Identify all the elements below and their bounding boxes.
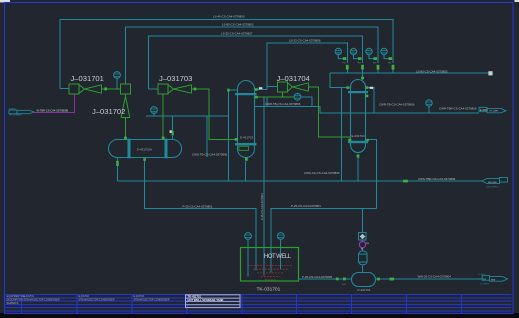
svg-text:E-431704: E-431704 [352, 134, 365, 138]
svg-text:CWS-TBR-CS-CA4-0370806: CWS-TBR-CS-CA4-0370806 [418, 177, 456, 181]
wire steam rail LS-32 (4th) [267, 43, 347, 90]
wire CWS header y181 [118, 180, 483, 182]
wire pump pot discharge to right edge [376, 278, 486, 280]
instrument near J-031704 [294, 93, 301, 100]
instrument on CWR line [426, 100, 432, 106]
wire hot well dip pipe 5 [280, 239, 282, 269]
wire stem instrument circle on CWR line [428, 106, 430, 113]
wire vertical drops to LS header [346, 70, 348, 74]
instrument below J-031703 [151, 107, 158, 114]
heat exchanger E-431702A (horizontal shell) [109, 139, 182, 159]
ejector J-031702 box [121, 84, 131, 94]
svg-text:FO: FO [373, 62, 376, 64]
wire pump stack suction line [271, 209, 376, 273]
svg-text:LS-80-CS-CA4-0370805: LS-80-CS-CA4-0370805 [416, 70, 448, 74]
fitting col1 right nozzle2 [255, 96, 258, 99]
top-right white mark [515, 0, 519, 2]
svg-text:TO WWT: TO WWT [480, 284, 490, 286]
fitting column1 bottom [245, 158, 248, 161]
fitting column1 inlet [235, 138, 238, 141]
fitting column2 left nozzle [346, 86, 349, 89]
svg-text:P-431701: P-431701 [358, 288, 371, 292]
wire J-031704 diffuser outlet to column2 [308, 87, 350, 137]
wire pump stack riser [362, 209, 364, 233]
svg-text:STEAM EJECTOR CONDENSER: STEAM EJECTOR CONDENSER [79, 299, 115, 302]
fitting exchanger bottom nozzle [143, 158, 146, 161]
svg-text:P-4317: P-4317 [479, 274, 487, 276]
fitting hot well outlet 2 [336, 278, 339, 281]
instrument set 1 [335, 48, 343, 58]
instrument set 4 [381, 48, 389, 58]
svg-text:TO CWR: TO CWR [489, 111, 498, 113]
svg-text:CWS-TB-CS-CA4-0370806: CWS-TB-CS-CA4-0370806 [192, 153, 228, 157]
svg-text:W-TBR-CS-CA4-0370800B: W-TBR-CS-CA4-0370800B [37, 108, 69, 112]
fitting col2 inlet nozzle [348, 139, 351, 142]
highlighted equipment cell TK-031701 [186, 295, 241, 308]
wire LS condensate header y73 [330, 72, 489, 74]
valve tag on exchanger drop [170, 130, 172, 133]
tag col2 dome-right [370, 87, 374, 89]
wire drop into exchanger top right [171, 116, 173, 140]
fitting exchanger top nozzle right (on drain) [162, 137, 165, 140]
ejector J-031704 box [278, 82, 288, 92]
ejector J-031703 nozzle-diffuser [168, 85, 192, 94]
wire J-031702 outlet into exchanger [125, 118, 127, 140]
wire steam rail LS-85 (2nd) [126, 27, 379, 84]
wire J-031704 drain vertical to hot well [263, 97, 265, 275]
connector right CWR (points right) [479, 107, 506, 113]
grip square at LS header end [488, 71, 492, 75]
instrument on hot well dip 5 [277, 233, 284, 240]
svg-text:FR CWS: FR CWS [488, 182, 497, 184]
svg-text:FO: FO [388, 62, 391, 64]
wire rail3 elbow into J-031703 [149, 88, 159, 90]
ejector J-031701 nozzle-diffuser [79, 85, 102, 94]
bottom black strip [0, 313, 519, 318]
pump pot P-431701 [352, 273, 376, 287]
svg-text:HOT WELL: HOT WELL [264, 254, 292, 260]
wire column2 bottom leg [357, 157, 359, 181]
wire hot well outlet to pump pot [298, 278, 351, 280]
svg-text:LO: LO [343, 284, 346, 286]
svg-text:CWR-TB-CS-CA4-0370806: CWR-TB-CS-CA4-0370806 [265, 102, 301, 106]
wire CWS riser to column2 [340, 88, 342, 181]
svg-text:FO: FO [358, 62, 361, 64]
svg-text:TK-031701: TK-031701 [257, 287, 281, 293]
wire J-031701 diffuser outlet to J-031702 [101, 88, 121, 90]
wire drop to CWS stub [206, 116, 208, 157]
instrument set 2 [350, 48, 358, 58]
wire header drop to column2 top [330, 73, 350, 88]
tag col1 dome-right [259, 87, 263, 89]
wire column1 bottom leg [245, 162, 247, 182]
svg-text:P-25-CS-CA4-0370801: P-25-CS-CA4-0370801 [183, 205, 213, 209]
ejector J-031702 vertical diffuser [121, 94, 130, 118]
svg-text:J–031702: J–031702 [92, 107, 125, 116]
wire column2 CWR elbow [365, 88, 374, 113]
tank TK-031701 hot well [241, 248, 299, 282]
ejector J-031703 box [158, 84, 168, 94]
wire exchanger bottom left drop [117, 158, 119, 182]
svg-text:CWR-TBR-CS-CA4-0370806: CWR-TBR-CS-CA4-0370806 [439, 107, 477, 111]
title block vertical dividers [21, 295, 23, 314]
wire CWR from column1 to right edge [266, 97, 268, 106]
strainer box on pump suction [359, 233, 367, 241]
svg-text:WW-25-CS-CA4-0370804: WW-25-CS-CA4-0370804 [418, 274, 452, 278]
svg-text:P-25-CS-CA4-0370801: P-25-CS-CA4-0370801 [291, 204, 321, 208]
wire vent collector line [154, 115, 229, 117]
svg-text:LS-32-CS-CA4-0370807: LS-32-CS-CA4-0370807 [221, 32, 253, 36]
wire col1 dome-left nozzle drop [229, 90, 238, 181]
ejector J-031701 box [69, 84, 79, 94]
column1 side tag box [239, 146, 249, 150]
fitting column2 top [361, 77, 364, 80]
wire col2 vapor inlet stub [362, 73, 364, 80]
svg-text:LS-40-CS-CA4-0370800: LS-40-CS-CA4-0370800 [213, 15, 245, 19]
svg-text:STEAM EJECTOR CONDENSER: STEAM EJECTOR CONDENSER [134, 299, 170, 302]
svg-text:J–031701: J–031701 [71, 74, 104, 83]
svg-text:CWR-TB-CS-CA4-0370806: CWR-TB-CS-CA4-0370806 [379, 103, 415, 107]
wire steam rail LS-32 (3rd) [149, 36, 363, 89]
fitting pump discharge 2 [390, 278, 395, 281]
fitting column2 bottom [357, 154, 360, 157]
fitting exchanger bottom left drop [116, 161, 119, 166]
fitting col2 right nozzle2 [365, 95, 368, 98]
column E-431703 (vertical condenser 1) [238, 81, 255, 158]
wire pump stack connectors [362, 240, 364, 241]
fitting on J3 discharge [194, 88, 197, 91]
wire rail1 elbow into J-031701 [60, 88, 69, 90]
wire stem instrument circle above J-031702 [116, 79, 118, 89]
wire J-031703 box drain to exchanger top [162, 94, 164, 140]
svg-text:LS-85-CS-CA4-0370802: LS-85-CS-CA4-0370802 [222, 23, 254, 27]
wire J-031703 diffuser outlet down to column1 [191, 89, 237, 139]
wire col1 overhead to riser [255, 89, 268, 91]
fitting col2 dome-right nozzle [365, 86, 368, 89]
svg-text:HP 42 BARG: HP 42 BARG [9, 114, 22, 117]
top-left white mark [0, 0, 10, 2]
svg-text:CWS-CA-CS-CA4-0370806: CWS-CA-CS-CA4-0370806 [304, 171, 340, 175]
valve (magenta) on pump suction [359, 241, 365, 247]
wire column2 condensate outlet [368, 140, 377, 209]
fitting on J1-J2 line [104, 87, 107, 90]
svg-text:S-EHS: S-EHS [9, 109, 16, 111]
instrument on hot well dip 1 [245, 233, 252, 240]
svg-text:REMARKS: REMARKS [7, 302, 19, 305]
wire circle4 outlet to CWR [301, 97, 312, 106]
fitting col1 dome-right nozzle [255, 88, 258, 91]
instrument set 3 [366, 48, 374, 58]
wire J-031704 box drain [283, 92, 295, 97]
fitting on CWS header [403, 180, 408, 183]
wire hot well dip pipe 1 [247, 239, 249, 276]
svg-text:P-25-CS-CA4-0370801: P-25-CS-CA4-0370801 [260, 193, 264, 220]
ejector J-031704 nozzle-diffuser [288, 83, 309, 92]
svg-text:P-25-OS-CA4-0370805: P-25-OS-CA4-0370805 [302, 275, 332, 279]
wire J-031704 drain to barometric leg [255, 96, 283, 98]
svg-text:E-431703: E-431703 [240, 135, 253, 139]
instrument above J-031702 [114, 72, 121, 79]
svg-text:FO: FO [343, 62, 346, 64]
wire HP steam from left connector to J-031701 [34, 94, 74, 112]
wire rail4 elbow into J-031704 [267, 86, 278, 88]
svg-text:CW SUPPLY: CW SUPPLY [486, 187, 499, 189]
hot well liquid level marks (red) [248, 266, 293, 280]
svg-text:E-4303: E-4303 [480, 109, 488, 112]
connector right WW (points right) [482, 276, 507, 282]
svg-text:J–031704: J–031704 [277, 74, 310, 83]
wire stem instrument circle below J-031703 [146, 114, 154, 117]
fitting pump discharge 1 [377, 278, 380, 281]
fitting hot well outlet 1 [343, 278, 346, 281]
connector left (HP steam) [9, 110, 34, 114]
title block header texts [7, 295, 170, 305]
svg-text:STEAM EJECTOR CONDENSER: STEAM EJECTOR CONDENSER [24, 299, 60, 302]
wire steam rail LS-40 (top) [60, 20, 393, 89]
fitting exchanger top nozzle left [124, 137, 127, 140]
fitting col1 dome-left nozzle [227, 89, 229, 92]
title block horizontal rules [5, 294, 512, 296]
wire exchanger bottom drain to hot well [145, 161, 257, 271]
small vertical pot [359, 251, 368, 265]
svg-text:E-431702A: E-431702A [137, 147, 152, 151]
column E-431704 (vertical condenser 2) [351, 80, 366, 153]
connector right CWS (points left) [482, 178, 508, 184]
svg-text:LS-32-CS-CA4-0370806: LS-32-CS-CA4-0370806 [289, 39, 321, 43]
svg-text:HOT WELL STORAGE TANK: HOT WELL STORAGE TANK [188, 298, 224, 302]
svg-text:J–031703: J–031703 [159, 74, 192, 83]
fitting column2 right condensate nozzle [366, 139, 369, 142]
